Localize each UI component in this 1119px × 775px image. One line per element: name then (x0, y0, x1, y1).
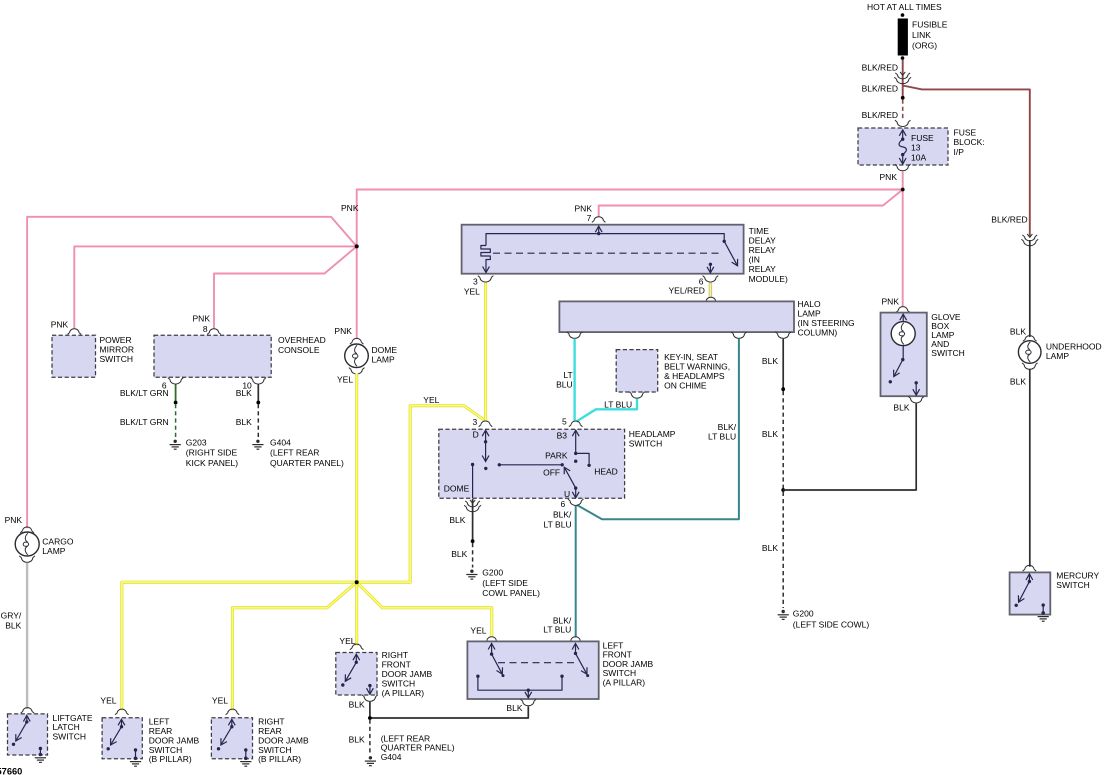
svg-text:PNK: PNK (341, 203, 359, 213)
left front door jamb switch (box) (467, 641, 598, 699)
connector mercury switch pin (1025, 565, 1034, 569)
mercury switch blade (1028, 574, 1030, 582)
wire BLK/RED segment 1 (902, 60, 904, 99)
svg-text:FUSE: FUSE (954, 128, 977, 138)
junction dot BLK DOME (471, 539, 475, 543)
wire BLK from DOME pin (472, 499, 474, 541)
right rear switch blade (231, 719, 233, 726)
svg-text:(B PILLAR): (B PILLAR) (149, 754, 192, 764)
underhood lamp (1018, 341, 1041, 364)
connector below cargo lamp (22, 558, 33, 563)
left front bottom pin arrow (527, 689, 530, 692)
svg-text:BLK/LT GRN: BLK/LT GRN (120, 388, 169, 398)
wire BLK to mercury switch (1029, 369, 1031, 567)
junction dot on BLK/RED (901, 96, 905, 100)
mercury switch (box) (1010, 572, 1051, 614)
svg-text:YEL: YEL (470, 626, 486, 636)
wire YEL riser to headlamp switch pin 3 (357, 406, 485, 583)
svg-text:YEL: YEL (464, 286, 480, 296)
halo lamp (box) (559, 301, 794, 332)
overhead console (dashed box) (154, 335, 271, 377)
left front door internal dashed (498, 662, 577, 664)
ground below mercury switch (1038, 616, 1049, 618)
svg-text:DELAY: DELAY (749, 235, 777, 245)
svg-text:LINK: LINK (912, 30, 931, 40)
svg-text:PNK: PNK (193, 313, 211, 323)
glove box bottom pin (915, 381, 918, 384)
connector right front BLK pin (364, 697, 375, 702)
ground below left rear switch (130, 761, 141, 763)
relay pin 7 arrow (598, 226, 600, 233)
connector chime pin (631, 394, 642, 399)
wire BLK/LT BLU halo to headlamp pin 6 (577, 339, 739, 519)
svg-text:BLU: BLU (556, 379, 573, 389)
svg-text:POWER: POWER (100, 335, 132, 345)
svg-text:BLK: BLK (349, 734, 365, 744)
svg-text:SWITCH: SWITCH (1056, 580, 1090, 590)
svg-text:FUSIBLE: FUSIBLE (912, 19, 948, 29)
junction dot BLK door jambs (368, 716, 372, 720)
svg-text:COWL PANEL): COWL PANEL) (482, 588, 540, 598)
svg-text:OFF: OFF (543, 468, 560, 478)
svg-text:LT BLU: LT BLU (604, 400, 632, 410)
left front bottom bus (476, 675, 479, 678)
headlamp OFF bus (499, 464, 562, 466)
svg-text:PNK: PNK (334, 326, 352, 336)
svg-text:PNK: PNK (882, 297, 900, 307)
relay coil resistor (481, 246, 490, 262)
svg-text:SWITCH: SWITCH (931, 348, 965, 358)
svg-text:B3: B3 (557, 431, 568, 441)
glove box pin arrow (902, 314, 904, 325)
svg-text:BLK/RED: BLK/RED (862, 110, 898, 120)
right front switch (355, 654, 357, 662)
svg-text:RELAY: RELAY (749, 264, 777, 274)
svg-text:PARK: PARK (545, 451, 568, 461)
connector halo pin LT BLU (569, 334, 580, 339)
liftgate latch switch (dashed box) (8, 714, 48, 755)
wire BLK right front down (369, 702, 371, 718)
wire YEL to right rear door jamb switch (232, 582, 356, 710)
ground below liftgate switch (35, 757, 46, 759)
svg-text:YEL: YEL (423, 395, 439, 405)
connector relay pin 6 (705, 278, 716, 283)
left front switch 2 (575, 644, 577, 654)
svg-text:TIME: TIME (749, 226, 770, 236)
svg-text:MODULE): MODULE) (749, 274, 788, 284)
svg-text:(LEFT SIDE COWL): (LEFT SIDE COWL) (793, 619, 870, 629)
ground G203 (174, 440, 177, 443)
svg-text:BLK/LT GRN: BLK/LT GRN (120, 417, 169, 427)
wire BLK glove box to splice (783, 403, 916, 490)
wire YEL to left front door jamb switch (357, 582, 492, 637)
wire LT BLU halo to headlamp switch pin 5 (573, 339, 575, 421)
node dot above fusible link (901, 13, 905, 17)
wire BLK/LT GRN solid (175, 385, 177, 403)
svg-text:BLK: BLK (762, 429, 778, 439)
svg-text:BLK/RED: BLK/RED (991, 214, 1027, 224)
svg-text:PNK: PNK (5, 515, 23, 525)
wire BLK/LT GRN dashed (175, 404, 177, 438)
svg-text:GRY/: GRY/ (1, 611, 22, 621)
svg-text:(B PILLAR): (B PILLAR) (258, 754, 301, 764)
svg-text:CONSOLE: CONSOLE (278, 345, 320, 355)
svg-text:3: 3 (473, 276, 478, 286)
wire BLK from halo solid (782, 339, 784, 389)
wire BLK/LT BLU to left front door jamb (575, 506, 577, 638)
svg-text:SWITCH: SWITCH (53, 732, 87, 742)
key-in chime module (dashed box) (616, 350, 658, 392)
right front door jamb switch (dashed box) (336, 653, 377, 696)
svg-text:(A PILLAR): (A PILLAR) (382, 688, 425, 698)
svg-text:PNK: PNK (575, 204, 593, 214)
svg-text:LAMP: LAMP (1046, 351, 1069, 361)
svg-text:HEAD: HEAD (594, 467, 618, 477)
relay switch pivot (723, 240, 726, 243)
svg-text:DOME: DOME (444, 483, 470, 493)
wire BLK/RED segment 3 (dashed) (902, 100, 904, 121)
svg-text:HEADLAMP: HEADLAMP (629, 429, 676, 439)
relay coil lower arrow (485, 262, 487, 273)
wire BLK to underhood lamp (1029, 240, 1031, 337)
svg-text:HALO: HALO (798, 299, 822, 309)
svg-text:BLK/RED: BLK/RED (862, 84, 898, 94)
wire PNK to dome lamp (356, 246, 358, 338)
junction dot YEL (355, 580, 359, 584)
svg-text:DOME: DOME (372, 345, 398, 355)
svg-text:PNK: PNK (880, 172, 898, 182)
wire BLK dashed to G404 quarter panel (369, 720, 371, 754)
svg-text:YEL/RED: YEL/RED (669, 286, 705, 296)
connector inline on BLK/RED (900, 72, 905, 75)
svg-text:G200: G200 (482, 568, 503, 578)
wire YEL dome lamp down (355, 374, 358, 583)
svg-text:YEL: YEL (339, 636, 355, 646)
wire BLK left front to junction (370, 706, 528, 718)
relay pin 6 arrow (709, 263, 712, 266)
svg-text:57660: 57660 (0, 767, 22, 775)
fuse 13 symbol (902, 130, 904, 139)
junction dot BLK/LT GRN (174, 401, 178, 405)
right rear ground contact (244, 748, 247, 751)
right front bottom pin (368, 684, 371, 687)
fuse block I/P (dashed box) (858, 128, 948, 165)
svg-text:KICK PANEL): KICK PANEL) (186, 458, 238, 468)
svg-text:YEL: YEL (212, 696, 228, 706)
svg-text:BLK: BLK (236, 417, 252, 427)
svg-text:BLK: BLK (1010, 327, 1026, 337)
svg-text:FUSE: FUSE (911, 133, 934, 143)
ground G404 right side kick (256, 440, 259, 443)
headlamp PARK contact (574, 460, 577, 463)
svg-text:(RIGHT SIDE: (RIGHT SIDE (186, 448, 238, 458)
svg-text:BLK: BLK (349, 700, 365, 710)
svg-text:SWITCH: SWITCH (629, 439, 663, 449)
wire BLK dashed to G404 (257, 404, 259, 438)
svg-text:G203: G203 (186, 437, 207, 447)
svg-text:BLK: BLK (762, 543, 778, 553)
svg-text:(ORG): (ORG) (912, 41, 937, 51)
svg-text:QUARTER PANEL): QUARTER PANEL) (381, 743, 455, 753)
svg-text:BLK: BLK (893, 402, 909, 412)
connector below fuse block (897, 166, 908, 171)
connector halo pin BLK/LT BLU (733, 334, 744, 339)
connector left front BLK pin (523, 701, 534, 706)
wire BLK dashed to G200 (782, 391, 784, 608)
connector below dome lamp (351, 370, 362, 375)
svg-text:(A PILLAR): (A PILLAR) (603, 678, 646, 688)
wire YEL to left rear door jamb switch (122, 582, 357, 710)
wire GRY/BLK (26, 563, 28, 709)
svg-text:LAMP: LAMP (42, 546, 65, 556)
connector halo lamp top (706, 297, 715, 301)
svg-text:10A: 10A (911, 152, 926, 162)
svg-text:HOT AT ALL TIMES: HOT AT ALL TIMES (867, 2, 942, 12)
svg-text:G404: G404 (381, 752, 402, 762)
svg-text:(LEFT SIDE: (LEFT SIDE (482, 578, 528, 588)
svg-text:(IN STEERING: (IN STEERING (798, 318, 855, 328)
svg-text:BLK: BLK (506, 703, 522, 713)
svg-text:6: 6 (560, 499, 565, 509)
headlamp switch (dashed box) (439, 429, 625, 498)
wire YEL to right front door jamb switch (355, 582, 358, 645)
connector above underhood lamp (1025, 336, 1034, 340)
glove box lamp and switch (box) (881, 313, 927, 397)
connector liftgate latch switch (23, 708, 32, 712)
svg-text:G404: G404 (270, 437, 291, 447)
svg-text:YEL: YEL (100, 696, 116, 706)
wire PNK to overhead console (214, 246, 357, 328)
svg-text:(IN: (IN (749, 255, 760, 265)
wire BLK/RED branch to underhood lamp (903, 86, 1030, 238)
cargo lamp (15, 532, 39, 556)
svg-text:D: D (473, 429, 479, 439)
headlamp D wiper (485, 442, 487, 462)
svg-text:SWITCH: SWITCH (100, 354, 134, 364)
headlamp DOME contact (471, 463, 474, 466)
left front switch 1 (491, 644, 493, 655)
wire PNK to power mirror switch (74, 246, 356, 328)
connector headlamp DOME pin (470, 500, 475, 503)
svg-text:MIRROR: MIRROR (100, 345, 134, 355)
svg-text:YEL: YEL (337, 374, 353, 384)
svg-text:BLK: BLK (1010, 376, 1026, 386)
svg-text:BLK/: BLK/ (553, 510, 572, 520)
svg-text:G200: G200 (793, 609, 814, 619)
liftgate switch blade (26, 716, 28, 722)
connector inline underhood (1027, 234, 1032, 237)
svg-text:COLUMN): COLUMN) (798, 328, 838, 338)
svg-text:MERCURY: MERCURY (1056, 571, 1099, 581)
dome lamp (345, 344, 369, 368)
svg-text:PNK: PNK (51, 319, 69, 329)
svg-text:BLK/RED: BLK/RED (862, 63, 898, 73)
svg-text:8: 8 (203, 324, 208, 334)
svg-text:BLOCK:: BLOCK: (954, 137, 985, 147)
wire YEL/RED (709, 283, 712, 298)
relay internal top bus (486, 234, 724, 246)
svg-text:13: 13 (911, 143, 921, 153)
svg-text:I/P: I/P (954, 147, 965, 157)
junction dot PNK below fuse (901, 188, 905, 192)
wire BLK dashed to G200 cowl (472, 543, 474, 568)
svg-text:LT BLU: LT BLU (708, 431, 736, 441)
svg-text:UNDERHOOD: UNDERHOOD (1046, 341, 1102, 351)
wire LT BLU chime branch (577, 399, 638, 422)
junction dot BLK halo (781, 387, 785, 391)
connector relay pin 3 (480, 278, 491, 283)
svg-text:LAMP: LAMP (798, 308, 821, 318)
svg-text:LT BLU: LT BLU (544, 519, 572, 529)
svg-text:BLK: BLK (762, 356, 778, 366)
fusible link (black bar) (898, 19, 908, 56)
svg-text:ON CHIME: ON CHIME (664, 380, 707, 390)
ground G404 quarter panel (369, 756, 372, 759)
svg-text:OVERHEAD: OVERHEAD (278, 335, 326, 345)
wire YEL relay pin3 to headlamp switch (484, 283, 487, 421)
headlamp HEAD contact (576, 453, 589, 463)
svg-text:BLK: BLK (236, 388, 252, 398)
svg-text:LAMP: LAMP (372, 355, 395, 365)
node dot below fusible link (901, 56, 905, 60)
svg-text:(LEFT REAR: (LEFT REAR (270, 448, 319, 458)
svg-text:RELAY: RELAY (749, 245, 777, 255)
svg-text:QUARTER PANEL): QUARTER PANEL) (270, 458, 344, 468)
junction dot BLK glove box tie (781, 488, 785, 492)
junction dot PNK left (355, 244, 359, 248)
svg-text:5: 5 (562, 417, 567, 427)
svg-text:BLK: BLK (5, 620, 21, 630)
connector halo pin BLK (778, 334, 789, 339)
svg-text:U: U (564, 489, 570, 499)
svg-text:BLK: BLK (449, 515, 465, 525)
connector left front door BLK/LT BLU pin (571, 637, 580, 641)
right rear door jamb switch (dashed box) (211, 718, 252, 759)
mercury switch ground contact (1042, 603, 1045, 606)
power mirror switch (dashed box) (52, 335, 96, 377)
ground G200 cowl (470, 570, 473, 573)
left rear door jamb switch (dashed box) (102, 718, 142, 759)
glove box switch (902, 346, 904, 360)
left rear switch blade (121, 719, 123, 726)
ground below right rear switch (240, 761, 251, 763)
connector glove box BLK pin (911, 398, 922, 403)
wire PNK to cargo lamp (27, 217, 357, 529)
relay internal dashed line (493, 252, 722, 254)
headlamp OFF wiper blade (561, 463, 564, 466)
glove box lamp (891, 322, 915, 346)
svg-text:BLK: BLK (451, 549, 467, 559)
wire PNK main horizontal (357, 190, 903, 247)
time delay relay (box) (462, 225, 744, 274)
connector into fuse block (897, 122, 908, 127)
wire BLK solid from pin 10 (257, 385, 259, 403)
wire PNK branch to time delay relay pin 7 (599, 190, 903, 217)
svg-text:7: 7 (587, 213, 592, 223)
svg-text:LT BLU: LT BLU (543, 625, 571, 635)
liftgate ground contact (39, 747, 42, 750)
svg-text:3: 3 (472, 417, 477, 427)
left rear ground contact (134, 748, 137, 751)
relay switch blade (724, 241, 737, 265)
junction dot BLK pin 10 (256, 401, 260, 405)
connector below underhood lamp (1024, 365, 1035, 370)
ground G200 steering (782, 610, 785, 613)
